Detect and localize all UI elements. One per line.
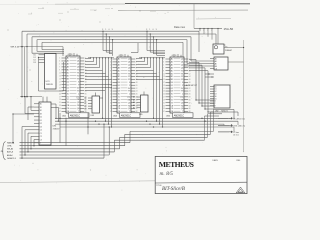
svg-text:C1: C1 xyxy=(40,133,42,135)
net arrow WR addr xyxy=(218,124,229,126)
counter chip U80 xyxy=(214,57,228,70)
svg-text:Q3: Q3 xyxy=(77,67,79,69)
connector bracket J5 xyxy=(3,142,6,160)
wire top bus line 2 xyxy=(27,33,216,35)
svg-text:1: 1 xyxy=(149,29,150,31)
wire bus left drop B xyxy=(26,34,28,97)
svg-text:18: 18 xyxy=(189,82,191,84)
buffer chip U63 xyxy=(92,96,100,113)
oscillator Y1 20MHZ xyxy=(213,44,224,54)
svg-text:Y2: Y2 xyxy=(118,99,120,101)
svg-text:B0: B0 xyxy=(171,70,173,72)
svg-text:B3: B3 xyxy=(171,79,173,81)
svg-text:21: 21 xyxy=(59,87,61,89)
svg-text:Q2: Q2 xyxy=(181,65,183,67)
svg-text:0: 0 xyxy=(153,29,154,31)
svg-text:D3: D3 xyxy=(40,126,42,128)
junction dots y96.5 xyxy=(21,96,23,98)
svg-text:D3: D3 xyxy=(171,91,173,93)
wire bus right drop 3 xyxy=(190,37,192,61)
svg-text:D1: D1 xyxy=(67,84,69,86)
mux chip U95 74S157 xyxy=(39,102,51,145)
junction dot WR/dropA xyxy=(21,46,23,48)
svg-text:23: 23 xyxy=(59,90,61,92)
svg-text:Q2: Q2 xyxy=(128,65,130,67)
wire bus right drop 5 xyxy=(182,42,184,66)
svg-text:74S157: 74S157 xyxy=(53,129,61,131)
svg-text:24: 24 xyxy=(136,91,138,93)
svg-text:F3: F3 xyxy=(77,78,79,80)
svg-text:F2: F2 xyxy=(128,76,130,78)
svg-text:U65: U65 xyxy=(139,114,142,116)
svg-text:[0:15]: [0:15] xyxy=(234,135,239,137)
wires U62-U64 lower connects xyxy=(85,83,112,85)
svg-text:F3: F3 xyxy=(77,90,79,92)
svg-text:9: 9 xyxy=(156,29,157,31)
wire faint y19 xyxy=(196,18,231,20)
svg-text:34: 34 xyxy=(189,105,191,107)
svg-text:D0: D0 xyxy=(118,82,120,84)
svg-text:P: P xyxy=(182,85,183,87)
svg-text:D1: D1 xyxy=(171,85,173,87)
wire top bus line 1 xyxy=(22,30,199,32)
svg-text:21: 21 xyxy=(163,88,165,90)
svg-text:40 1 20: 40 1 20 xyxy=(172,55,177,57)
svg-text:D2: D2 xyxy=(40,123,42,125)
svg-text:22: 22 xyxy=(85,87,87,89)
svg-text:F0: F0 xyxy=(77,70,79,72)
svg-text:B0: B0 xyxy=(67,70,69,72)
svg-text:33: 33 xyxy=(59,105,61,107)
svg-text:25: 25 xyxy=(163,94,165,96)
svg-text:CP/A: CP/A xyxy=(7,145,12,148)
wire mid bus line 5 xyxy=(130,130,214,132)
svg-text:26: 26 xyxy=(189,94,191,96)
svg-text:36: 36 xyxy=(189,108,191,110)
svg-text:B2: B2 xyxy=(67,76,69,78)
svg-text:CN4: CN4 xyxy=(127,97,130,99)
svg-text:0: 0 xyxy=(109,29,110,31)
net arrow RAM Data xyxy=(218,117,229,119)
svg-text:D3: D3 xyxy=(215,94,217,96)
svg-text:23: 23 xyxy=(163,91,165,93)
svg-text:Q0: Q0 xyxy=(128,108,130,110)
wires bus drops to data mux U64 xyxy=(102,31,104,50)
svg-text:26: 26 xyxy=(85,93,87,95)
svg-text:Y0: Y0 xyxy=(118,94,120,96)
svg-text:E: E xyxy=(215,106,216,108)
svg-text:Q0: Q0 xyxy=(128,59,130,61)
svg-text:B1: B1 xyxy=(67,73,69,75)
wire mid bus line 1 xyxy=(55,117,228,119)
svg-text:Z: Z xyxy=(182,94,183,96)
svg-text:29: 29 xyxy=(163,99,165,101)
svg-text:Y: Y xyxy=(211,30,212,32)
svg-text:36: 36 xyxy=(136,108,138,110)
wire Y1 to right border xyxy=(224,47,244,49)
svg-text:Q0: Q0 xyxy=(77,58,79,60)
net arrow D bus xyxy=(218,131,229,133)
wire mid bus line 6 xyxy=(125,133,211,135)
svg-text:11: 11 xyxy=(59,73,61,75)
svg-text:74S189: 74S189 xyxy=(46,84,54,86)
svg-text:D2: D2 xyxy=(171,88,173,90)
wires U95 left pins to bottom bus xyxy=(22,126,34,128)
svg-text:35: 35 xyxy=(163,108,165,110)
svg-text:B1: B1 xyxy=(171,73,173,75)
wires 15A-56 branch drops xyxy=(199,28,201,31)
svg-text:D2: D2 xyxy=(215,91,217,93)
bottom sheet border line xyxy=(0,181,155,183)
svg-text:S1: S1 xyxy=(215,98,217,100)
svg-text:Q3: Q3 xyxy=(128,67,130,69)
svg-text:27: 27 xyxy=(59,96,61,98)
wire bus right drop 2 xyxy=(215,34,217,52)
svg-text:AM2901C: AM2901C xyxy=(121,114,132,117)
wire mid bus line 4 xyxy=(60,126,234,128)
svg-text:32: 32 xyxy=(189,102,191,104)
svg-text:Q3: Q3 xyxy=(128,102,130,104)
svg-text:D0: D0 xyxy=(215,86,217,88)
wire top bus line 5 xyxy=(42,41,183,43)
svg-text:m. 8/5: m. 8/5 xyxy=(160,171,174,177)
svg-text:B2: B2 xyxy=(118,76,120,78)
svg-text:15: 15 xyxy=(163,79,165,81)
svg-text:15: 15 xyxy=(59,78,61,80)
svg-text:Z: Z xyxy=(129,94,130,96)
svg-text:RAM [0:15]: RAM [0:15] xyxy=(234,117,246,120)
svg-text:F3: F3 xyxy=(181,91,183,93)
svg-text:D3: D3 xyxy=(118,91,120,93)
svg-text:B3: B3 xyxy=(118,79,120,81)
svg-text:16: 16 xyxy=(189,79,191,81)
wires U66 outputs to U82 xyxy=(189,59,196,61)
svg-text:B1: B1 xyxy=(118,73,120,75)
svg-text:METHEUS: METHEUS xyxy=(159,160,194,169)
svg-text:20: 20 xyxy=(85,84,87,86)
svg-text:D1: D1 xyxy=(215,89,217,91)
svg-text:F2: F2 xyxy=(77,76,79,78)
svg-text:Y3: Y3 xyxy=(171,102,173,104)
wire bus left drop A xyxy=(21,31,23,96)
svg-text:17: 17 xyxy=(59,81,61,83)
svg-text:F1: F1 xyxy=(181,73,183,75)
title block frame xyxy=(155,156,247,193)
svg-text:WR-A0: WR-A0 xyxy=(7,148,13,151)
svg-text:19: 19 xyxy=(163,85,165,87)
svg-text:B2: B2 xyxy=(171,76,173,78)
svg-text:DATE: DATE xyxy=(213,159,219,162)
svg-text:D0: D0 xyxy=(67,81,69,83)
svg-text:40 1 20: 40 1 20 xyxy=(68,54,73,56)
svg-text:Q1: Q1 xyxy=(181,62,183,64)
second top border line xyxy=(118,9,248,11)
svg-text:Q0: Q0 xyxy=(181,108,183,110)
svg-text:P: P xyxy=(129,85,130,87)
svg-text:D3: D3 xyxy=(34,62,36,64)
svg-text:18: 18 xyxy=(136,82,138,84)
wire U73 loop xyxy=(38,57,40,91)
svg-text:Q1: Q1 xyxy=(77,61,79,63)
wires U64 outputs staircase to U66 xyxy=(139,57,165,59)
svg-text:S0: S0 xyxy=(215,96,217,98)
svg-text:18: 18 xyxy=(85,81,87,83)
wire drop mid-left xyxy=(24,47,26,97)
svg-text:1: 1 xyxy=(105,29,106,31)
svg-text:9: 9 xyxy=(112,29,113,31)
svg-text:S0: S0 xyxy=(40,104,42,106)
wire bus left drop E xyxy=(41,42,43,49)
svg-text:WR.S.06: WR.S.06 xyxy=(11,47,21,49)
svg-text:BIT-Slice/B: BIT-Slice/B xyxy=(162,187,185,192)
wire y96.5 left xyxy=(20,96,42,98)
svg-text:20MHZ: 20MHZ xyxy=(225,50,233,52)
svg-text:31: 31 xyxy=(163,102,165,104)
svg-text:S2: S2 xyxy=(40,110,42,112)
RAM chip U73 74S189 xyxy=(45,54,57,90)
svg-text:F0: F0 xyxy=(128,70,130,72)
svg-text:Y0: Y0 xyxy=(67,93,69,95)
wire mid bus line 8 xyxy=(114,139,204,141)
svg-text:F0: F0 xyxy=(181,70,183,72)
svg-text:25: 25 xyxy=(59,93,61,95)
svg-text:C3: C3 xyxy=(40,139,42,141)
svg-text:Q1: Q1 xyxy=(128,62,130,64)
top sheet border line xyxy=(125,3,250,5)
wire bus right drop 1 xyxy=(198,31,200,52)
svg-text:Y: Y xyxy=(199,30,200,32)
svg-text:Y1: Y1 xyxy=(171,97,173,99)
svg-text:D2: D2 xyxy=(118,88,120,90)
ALU chip U66 (AM2901) xyxy=(170,57,184,113)
wire mid bus line 2 xyxy=(55,120,238,122)
svg-text:F3: F3 xyxy=(128,79,130,81)
svg-text:Y1: Y1 xyxy=(67,96,69,98)
wires bus drops to data mux U66 xyxy=(146,31,148,50)
svg-text:D1: D1 xyxy=(118,85,120,87)
wire net 15A-56 xyxy=(194,27,222,29)
ALU chip U62 (AM2901) xyxy=(66,56,80,113)
svg-text:30: 30 xyxy=(189,99,191,101)
wires chip1 area verticals xyxy=(59,113,61,143)
wire bus left drop D xyxy=(36,40,38,52)
svg-text:24: 24 xyxy=(189,91,191,93)
svg-text:13: 13 xyxy=(163,76,165,78)
svg-text:S1: S1 xyxy=(40,107,42,109)
svg-text:Q2: Q2 xyxy=(77,64,79,66)
svg-text:AB-A4: AB-A4 xyxy=(7,154,12,157)
svg-text:Q0: Q0 xyxy=(181,59,183,61)
svg-text:C0: C0 xyxy=(40,130,42,132)
svg-text:Q3: Q3 xyxy=(181,67,183,69)
svg-text:22: 22 xyxy=(136,88,138,90)
svg-text:D0: D0 xyxy=(40,117,42,119)
svg-text:B0: B0 xyxy=(118,70,120,72)
svg-text:29: 29 xyxy=(59,99,61,101)
svg-text:35: 35 xyxy=(59,108,61,110)
svg-text:Y0: Y0 xyxy=(171,94,173,96)
svg-text:D2: D2 xyxy=(67,87,69,89)
svg-text:14: 14 xyxy=(189,76,191,78)
svg-text:F1: F1 xyxy=(128,73,130,75)
svg-text:F3: F3 xyxy=(128,91,130,93)
wire mid bus line 7 xyxy=(120,136,208,138)
svg-text:DATA/CLK: DATA/CLK xyxy=(7,157,17,160)
svg-text:AM2901C: AM2901C xyxy=(174,114,185,117)
svg-text:19: 19 xyxy=(59,84,61,86)
wire bus left drop C xyxy=(31,37,33,53)
svg-text:22: 22 xyxy=(189,88,191,90)
svg-text:Y3: Y3 xyxy=(67,102,69,104)
svg-text:26: 26 xyxy=(136,94,138,96)
svg-text:B3: B3 xyxy=(67,78,69,80)
register chip U82 74S174 xyxy=(214,85,230,108)
svg-text:11: 11 xyxy=(163,73,165,75)
svg-text:Y: Y xyxy=(203,30,204,32)
wires right nested loops xyxy=(214,109,235,111)
svg-text:Q0: Q0 xyxy=(77,108,79,110)
svg-text:F1: F1 xyxy=(77,73,79,75)
wire vertical to net 15A-56 xyxy=(193,4,195,28)
svg-text:33: 33 xyxy=(163,105,165,107)
logo triangle xyxy=(236,187,245,193)
svg-text:R0: R0 xyxy=(128,105,130,107)
ALU chip U64 (AM2901) xyxy=(117,57,131,113)
wire top bus line 3 xyxy=(32,36,191,38)
svg-text:32: 32 xyxy=(136,102,138,104)
wire bus right drop 4 xyxy=(186,40,188,64)
svg-text:WR addr 74: WR addr 74 xyxy=(234,125,246,127)
svg-text:ADR-A: ADR-A xyxy=(7,151,14,154)
svg-text:F2: F2 xyxy=(181,76,183,78)
svg-text:R0: R0 xyxy=(181,105,183,107)
wire mid bus line 3 xyxy=(55,123,224,125)
svg-text:Y2: Y2 xyxy=(67,99,69,101)
junction dots mid bus xyxy=(95,121,96,122)
junction dots U80 wires xyxy=(208,73,209,74)
svg-text:S3: S3 xyxy=(40,113,42,115)
wire top bus line 4 xyxy=(37,39,187,41)
svg-text:12: 12 xyxy=(189,73,191,75)
svg-text:D0: D0 xyxy=(171,82,173,84)
svg-text:27: 27 xyxy=(163,97,165,99)
svg-text:Q3: Q3 xyxy=(181,102,183,104)
svg-text:Data mux: Data mux xyxy=(174,25,186,29)
svg-text:U63: U63 xyxy=(91,115,94,117)
svg-text:37: 37 xyxy=(59,111,61,113)
svg-text:Y1: Y1 xyxy=(118,97,120,99)
wires U62 outputs staircase to U64 xyxy=(88,57,114,59)
svg-text:34: 34 xyxy=(136,105,138,107)
svg-text:37: 37 xyxy=(163,111,165,113)
svg-text:Z: Z xyxy=(78,93,79,95)
svg-text:Y: Y xyxy=(207,30,208,32)
right sheet border line xyxy=(243,40,245,152)
wire U80 to right border xyxy=(228,61,244,63)
svg-text:20: 20 xyxy=(136,85,138,87)
buffer chip U65 xyxy=(141,95,149,112)
title block divider xyxy=(155,181,247,184)
svg-text:F3: F3 xyxy=(181,79,183,81)
svg-text:15A-56: 15A-56 xyxy=(224,27,234,31)
svg-text:CN4: CN4 xyxy=(76,96,79,98)
svg-text:P: P xyxy=(78,84,79,86)
svg-text:4.7K SIP R7: 4.7K SIP R7 xyxy=(186,85,198,87)
svg-text:AM2901C: AM2901C xyxy=(70,114,81,117)
wire bottom bus group J5 xyxy=(20,142,131,144)
svg-text:CN4: CN4 xyxy=(180,97,183,99)
svg-text:Y2: Y2 xyxy=(171,99,173,101)
svg-text:31: 31 xyxy=(59,102,61,104)
svg-text:C2: C2 xyxy=(40,136,42,138)
svg-text:R0: R0 xyxy=(77,105,79,107)
svg-text:Q3: Q3 xyxy=(77,102,79,104)
svg-text:40 1 20: 40 1 20 xyxy=(119,55,124,57)
wire net WR xyxy=(20,46,64,48)
svg-text:17: 17 xyxy=(163,82,165,84)
wire left drop to J5 bus xyxy=(12,114,14,143)
svg-text:28: 28 xyxy=(189,97,191,99)
svg-text:13: 13 xyxy=(59,76,61,78)
svg-text:RAM0-A: RAM0-A xyxy=(7,141,15,144)
svg-text:Y3: Y3 xyxy=(118,102,120,104)
svg-text:D1: D1 xyxy=(40,120,42,122)
svg-text:D3: D3 xyxy=(67,90,69,92)
